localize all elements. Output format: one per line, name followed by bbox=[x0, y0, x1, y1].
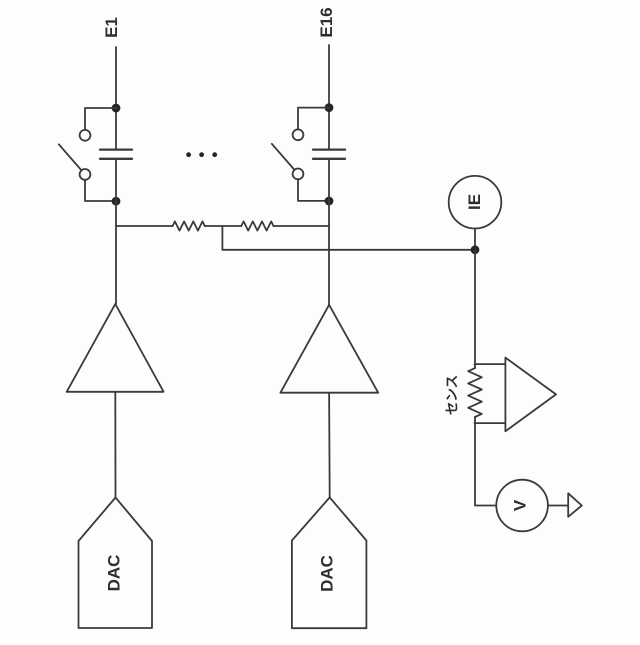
output terminal arrow bbox=[568, 493, 582, 517]
wire voltmeter to output bbox=[548, 505, 568, 507]
voltmeter V label bbox=[510, 499, 529, 511]
wire amp A1 to DAC1 bbox=[114, 392, 116, 498]
svg-text:センス: センス bbox=[444, 375, 459, 415]
wire junction to sense resistor bbox=[474, 250, 476, 368]
node E1 label bbox=[102, 17, 121, 38]
resistor sense (センス) bbox=[468, 368, 482, 417]
voltmeter V bbox=[496, 480, 548, 532]
resistor R2 bbox=[241, 221, 273, 230]
capacitor C16 bbox=[313, 150, 345, 159]
op-amp A1 (E1 driver) bbox=[67, 304, 164, 392]
current source IE bbox=[449, 176, 502, 229]
op-amp sense (differential) bbox=[505, 358, 556, 432]
switch S16 bbox=[272, 108, 329, 201]
capacitor C1 bbox=[100, 150, 132, 159]
sense resistor label センス bbox=[444, 375, 459, 415]
wire sense bottom tap bbox=[475, 422, 506, 424]
op-amp A16 (E16 driver) bbox=[280, 305, 378, 393]
wire IE to junction bbox=[474, 229, 476, 250]
resistor R1 bbox=[173, 221, 205, 230]
DAC1 label bbox=[105, 555, 124, 592]
wire R1 to R2 bbox=[205, 225, 242, 227]
wire E16 to amp bbox=[328, 159, 330, 305]
switch S1 bbox=[59, 108, 116, 201]
wire E1 node to R1 bbox=[116, 225, 173, 227]
svg-text:IE: IE bbox=[465, 194, 484, 210]
svg-text:E16: E16 bbox=[317, 7, 336, 37]
wire E1 lead bbox=[115, 47, 117, 150]
junction E1 top bbox=[112, 104, 121, 113]
node E16 label bbox=[317, 7, 336, 37]
wire E1 to amp bbox=[115, 159, 117, 304]
wire amp A16 to DAC16 bbox=[328, 393, 331, 498]
current source IE label bbox=[465, 194, 484, 210]
wire E16 lead bbox=[328, 45, 330, 150]
svg-text:DAC: DAC bbox=[317, 555, 336, 592]
junction E16 top bbox=[325, 103, 334, 112]
svg-text:V: V bbox=[510, 499, 529, 511]
ellipsis dots bbox=[186, 152, 217, 157]
junction E1 bottom bbox=[112, 197, 121, 206]
svg-text:DAC: DAC bbox=[105, 555, 124, 592]
DAC16 block bbox=[292, 497, 367, 628]
DAC1 block bbox=[79, 498, 153, 629]
wire sense to voltmeter bbox=[475, 417, 496, 506]
wire sense top tap bbox=[475, 363, 506, 365]
svg-text:E1: E1 bbox=[102, 17, 121, 38]
DAC16 label bbox=[317, 555, 336, 592]
wire tap between R1 and R2 bbox=[222, 226, 475, 250]
junction E16 bottom bbox=[325, 197, 334, 206]
wire R2 to E16 node bbox=[274, 225, 330, 227]
junction sense node bbox=[471, 245, 480, 254]
